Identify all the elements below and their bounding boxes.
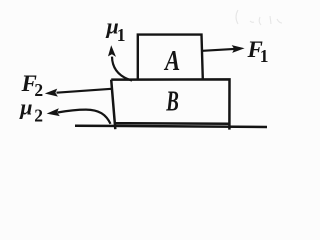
svg-text:1: 1 (117, 25, 126, 45)
F1 arrow (203, 45, 245, 53)
svg-text:B: B (166, 85, 179, 117)
svg-text:μ: μ (19, 95, 32, 120)
faint scan artifacts top right (236, 10, 282, 25)
svg-text:1: 1 (260, 46, 269, 66)
svg-text:2: 2 (34, 106, 43, 126)
label mu1 (106, 14, 126, 46)
label F2 (21, 71, 44, 100)
svg-text:2: 2 (34, 80, 43, 100)
F2 arrow (45, 89, 112, 97)
ground (75, 126, 267, 127)
mu2 arrow (47, 108, 111, 124)
block B (111, 79, 229, 129)
mu1 arrow (108, 45, 132, 80)
label F1 (247, 37, 269, 66)
label mu2 (19, 95, 43, 126)
svg-text:A: A (163, 45, 180, 77)
block A (138, 35, 203, 80)
